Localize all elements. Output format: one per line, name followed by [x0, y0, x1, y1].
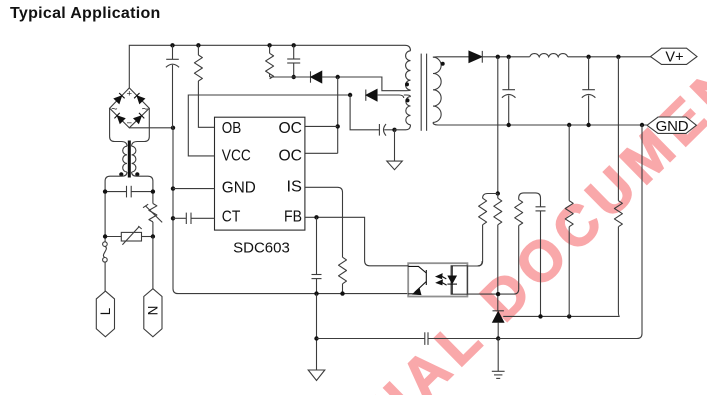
node: divider R7 gnd tap — [567, 123, 571, 127]
inductor L1 common-mode choke — [119, 141, 139, 178]
node: output cap1 tap — [507, 55, 511, 59]
bridge rectifier BD1 — [110, 88, 150, 129]
node: IS resistor on B- rail — [340, 291, 344, 295]
TL431 U3 — [493, 311, 620, 339]
node: output cap2 tap — [586, 55, 590, 59]
wire: common-mode choke left vertex lead — [110, 108, 127, 146]
svg-text:CT: CT — [222, 208, 241, 225]
wire: choke bottom-right to N branch — [132, 172, 153, 204]
svg-text:VCC: VCC — [222, 148, 251, 165]
node: output cap1 gnd tap — [507, 123, 511, 127]
wire: GND pin — [173, 188, 215, 190]
node: comp cap on ref line — [538, 314, 542, 318]
wire: FB pin line — [305, 217, 408, 265]
node: OC pin1 junction — [336, 124, 340, 128]
connector flag GND — [647, 117, 696, 135]
svg-text:−: − — [127, 118, 133, 129]
diode D1 snubber — [311, 71, 407, 90]
node: FB cap tap — [314, 215, 318, 219]
svg-text:N: N — [145, 306, 160, 316]
node: LED cathode / TL431 junction — [496, 292, 500, 296]
node: bridge minus junction — [171, 126, 175, 130]
resistor R1 (OB) — [194, 45, 214, 127]
svg-text:~: ~ — [142, 103, 148, 115]
diode D3 output rectifier — [469, 51, 651, 63]
resistor R5 bias (right) — [494, 194, 502, 311]
svg-text:~: ~ — [111, 103, 117, 115]
IC U1 SDC603 — [215, 117, 305, 256]
capacitor C5 FB — [312, 217, 322, 293]
wire: Y-cap rail — [317, 338, 425, 340]
capacitor C4 CT — [173, 213, 215, 224]
resistor R8 divider upper — [614, 57, 622, 317]
capacitor C8 comp — [536, 207, 546, 316]
svg-text:IS: IS — [287, 179, 303, 196]
wire: opto LED anode jog — [467, 261, 482, 266]
capacitor C1 bulk electrolytic — [166, 45, 179, 128]
svg-text:OB: OB — [222, 120, 242, 137]
wire: IS pin line — [305, 187, 343, 257]
node: CT pin tap — [171, 216, 175, 220]
wire: OC node vertical — [337, 77, 339, 153]
varistor RV1 (MOV) — [103, 226, 155, 245]
node: divider R5 tap — [616, 55, 620, 59]
node: R bias top junction — [496, 191, 500, 195]
wire: opto LED cathode line — [467, 289, 518, 294]
diode D2 aux — [366, 90, 404, 101]
svg-text:V+: V+ — [665, 50, 683, 66]
wire: Y-rail to secondary gnd riser — [498, 125, 642, 339]
aux winding — [406, 97, 411, 125]
wire: B+ sense line down to bias resistors — [497, 57, 499, 194]
node: snubber R tap on rail — [267, 43, 271, 47]
node: FB cap on B- rail — [314, 291, 318, 295]
node: snubber C tap on rail — [292, 43, 296, 47]
node: R bias feed tap — [496, 55, 500, 59]
primary winding — [406, 51, 411, 90]
resistor R6 comp — [515, 193, 541, 289]
ground: secondary earth — [492, 339, 505, 379]
resistor R3 IS — [339, 257, 347, 293]
fuse F1 — [103, 242, 108, 262]
wire: primary gnd drop — [316, 294, 318, 370]
wire: N branch down to flag — [152, 237, 154, 289]
wire: bridge minus to B- line — [129, 127, 173, 129]
connector flag N — [144, 289, 162, 337]
svg-text:GND: GND — [222, 180, 256, 197]
capacitor CY1 Y-cap — [425, 332, 498, 345]
node: OB resistor tap on rail — [196, 43, 200, 47]
inductor L2 output filter — [530, 54, 568, 57]
node: Y-cap rail tap — [314, 336, 318, 340]
wire: common-mode choke right vertex lead — [132, 108, 150, 146]
thermistor RT1 (NTC) — [143, 204, 162, 237]
node: GND pin tap — [171, 186, 175, 190]
ground: aux winding return (signal gnd triangle) — [387, 130, 403, 170]
svg-text:+: + — [127, 89, 133, 100]
resistor R7 divider lower — [565, 125, 573, 316]
svg-text:L: L — [98, 307, 113, 315]
capacitor C3 aux — [350, 95, 397, 136]
core — [420, 54, 422, 131]
node: output cap2 gnd tap — [586, 123, 590, 127]
capacitor C2 snubber — [287, 45, 300, 79]
transformer T1 — [395, 51, 648, 131]
wire: top B+ rail — [129, 45, 410, 88]
wire: OC pin2 — [305, 152, 338, 154]
secondary winding — [433, 57, 441, 122]
wire: OC pin1 — [305, 125, 338, 127]
svg-text:SDC603: SDC603 — [233, 239, 290, 256]
node: VCC-aux cap branch — [348, 93, 352, 97]
capacitor C7 output electrolytic — [582, 57, 596, 125]
wire: choke bottom-left to L branch — [105, 172, 127, 242]
resistor R2 snubber — [266, 45, 274, 78]
svg-text:FB: FB — [284, 208, 302, 225]
optocoupler U2 — [408, 263, 467, 296]
svg-text:GND: GND — [656, 118, 689, 135]
connector flag L — [96, 291, 114, 337]
node: gnd riser tap — [640, 123, 644, 127]
ground: primary (triangle) — [308, 370, 325, 381]
capacitor CX1 X-cap — [103, 186, 155, 198]
wire: B- vertical line — [173, 128, 408, 294]
wire: snubber bottom rail — [270, 76, 311, 78]
node: TL431 anode junction — [496, 336, 500, 340]
capacitor C6 output electrolytic — [502, 57, 516, 125]
svg-text:OC: OC — [279, 148, 303, 165]
resistor R4 bias (left) — [467, 194, 497, 267]
node: bulk cap tap on rail — [170, 43, 174, 47]
connector flag V+ — [651, 48, 698, 65]
svg-text:OC: OC — [279, 120, 303, 137]
node: R7 on ref line — [567, 314, 571, 318]
wire: VCC pin jog — [188, 95, 350, 156]
